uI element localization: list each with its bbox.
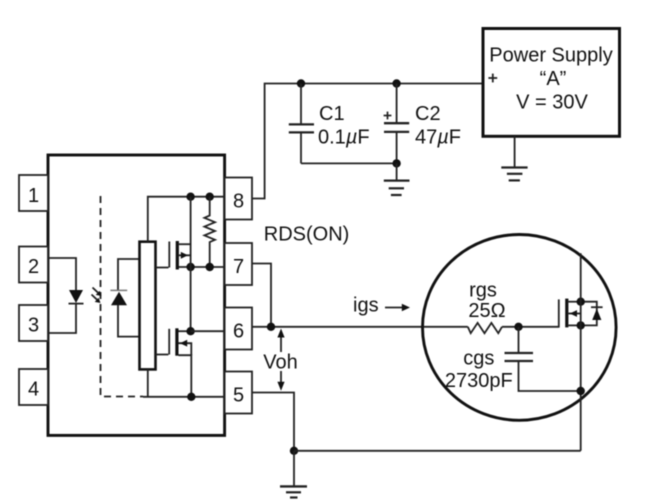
transistor Q3 gate bar (558, 299, 560, 327)
node C2 top junction (392, 79, 400, 87)
wire photodiode anode to driver (118, 305, 140, 337)
svg-text:1: 1 (28, 185, 39, 207)
svg-text:Power Supply: Power Supply (489, 45, 612, 67)
pin 6 (225, 308, 252, 350)
pin 5 (225, 372, 252, 414)
transistor Q1 drain lead (179, 243, 191, 245)
node pin6-pin7 junction (267, 323, 275, 331)
Voh arrow lower (277, 371, 284, 391)
svg-text:47µF: 47µF (415, 126, 461, 148)
svg-text:2: 2 (28, 256, 39, 278)
power supply box PS-A (483, 29, 620, 137)
wire Q1 drain column / Q1-Q2 series link (190, 197, 192, 332)
wire driver bottom to internal rail (147, 369, 149, 396)
transistor Q3 body lead with arrow (568, 310, 580, 317)
wire pin5 to bottom rail (252, 393, 294, 451)
svg-text:Voh: Voh (263, 352, 297, 374)
svg-text:V = 30V: V = 30V (516, 92, 588, 114)
node Q2 drain junction (186, 327, 194, 335)
svg-text:igs: igs (353, 295, 379, 317)
transistor Q2 gate lead (156, 354, 169, 356)
transistor Q2 gate bar (168, 329, 170, 355)
node Q3 source junction (577, 321, 585, 329)
svg-text:4: 4 (28, 379, 39, 401)
wire pin6 internal line (191, 330, 225, 332)
transistor Q3 source lead (568, 324, 580, 326)
svg-text:RDS(ON): RDS(ON) (264, 224, 350, 246)
wire photodiode cathode to driver (118, 259, 140, 290)
node VDD-R junction (206, 193, 214, 201)
node C2 bottom junction (392, 159, 400, 167)
transistor Q1 gate lead (156, 267, 169, 269)
wire IC bottom internal rail (143, 396, 225, 398)
node Q2 source junction (187, 393, 195, 401)
pin 7 (225, 243, 252, 285)
ground at bottom rail (280, 451, 307, 498)
transistor Q1 channel bar (176, 241, 179, 270)
pin 1 (19, 175, 48, 211)
wire pin8 to V+ rail (252, 84, 483, 199)
isolation barrier dashed line (101, 196, 144, 397)
transistor Q1 gate bar (168, 242, 170, 268)
wire driver top to internal VDD rail (148, 197, 225, 242)
pin 3 (19, 305, 48, 341)
wire pin7 internal line (177, 266, 224, 268)
ground below power supply (501, 136, 527, 180)
resistor rgs (468, 323, 502, 333)
wire Q3 drain-source column (580, 253, 582, 450)
node rgs-cgs junction (514, 323, 522, 331)
transistor Q2 channel bar (175, 328, 178, 355)
body diode D3 (591, 307, 603, 320)
svg-text:5: 5 (233, 385, 244, 407)
node VDD-Q1 junction (186, 193, 194, 201)
pin 8 (225, 178, 252, 220)
svg-text:“A”: “A” (540, 68, 567, 90)
wire rgs to gate (502, 326, 559, 328)
pin 4 (19, 369, 48, 405)
DUT circle (423, 235, 617, 421)
transistor Q3 channel bar (565, 299, 568, 328)
svg-text:2730pF: 2730pF (445, 370, 513, 392)
svg-text:cgs: cgs (463, 348, 494, 370)
gate driver block (140, 242, 156, 370)
wire bottom rail (294, 450, 581, 452)
resistor internal (gate bleed) (204, 197, 215, 267)
node Q1 source junction (186, 263, 194, 271)
igs arrow (385, 304, 410, 312)
svg-text:8: 8 (233, 191, 244, 213)
pin 2 (19, 247, 48, 283)
wire pin6 to rgs (252, 326, 468, 328)
svg-text:C1: C1 (319, 103, 345, 125)
transistor Q2 drain lead (179, 330, 191, 332)
wire pin7 to pin6 node (252, 264, 271, 327)
svg-text:C2: C2 (415, 103, 441, 125)
capacitor C2 polarity plus (384, 112, 392, 120)
capacitor C1 (289, 84, 314, 164)
power supply plus terminal (488, 74, 497, 83)
svg-text:6: 6 (233, 321, 244, 343)
svg-text:0.1µF: 0.1µF (318, 126, 370, 148)
transistor Q2 source lead (179, 355, 192, 397)
light arrow 2 (92, 295, 101, 304)
IC body U1 (48, 155, 225, 435)
wire LED anode from pin2 (48, 258, 76, 290)
svg-text:7: 7 (233, 256, 244, 278)
Voh arrow upper (277, 329, 284, 353)
svg-text:rgs: rgs (469, 280, 497, 302)
wire LED cathode to pin3 (48, 304, 76, 333)
node cgs-source junction (577, 387, 585, 395)
node R-pin7 junction (206, 263, 214, 271)
capacitor C2 (384, 84, 409, 164)
body diode loop (581, 302, 597, 326)
transistor Q3 drain lead (568, 301, 580, 303)
transistor Q2 body lead with arrow (179, 340, 192, 355)
transistor Q1 body lead with arrow (179, 252, 191, 259)
capacitor cgs (505, 327, 581, 391)
wire C1 bottom to C2 bottom (301, 162, 397, 164)
light arrow 1 (93, 288, 102, 297)
node Q3 drain junction (577, 298, 585, 306)
photodiode D2 (110, 290, 127, 305)
node C1 top junction (297, 79, 305, 87)
svg-text:25Ω: 25Ω (468, 300, 505, 322)
ground below C2 (384, 163, 410, 195)
svg-text:3: 3 (28, 315, 39, 337)
node bottom rail ground junction (290, 447, 298, 455)
LED D1 (69, 290, 84, 304)
